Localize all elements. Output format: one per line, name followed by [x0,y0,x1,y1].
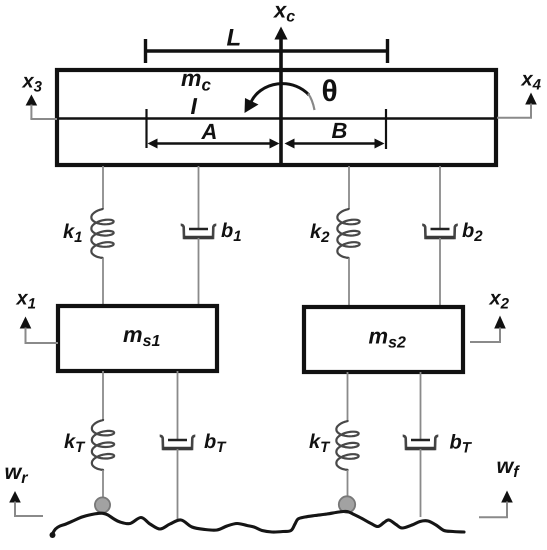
road profile [52,511,464,534]
svg-text:L: L [227,25,242,52]
rod m_s1 to damper bT [177,371,179,439]
svg-text:B: B [332,118,348,143]
tyre damper bT right [403,436,439,449]
L right tick [386,39,389,63]
rod spring k1 to m_s1 [102,258,104,306]
damper b1 [181,225,217,238]
rod spring kT right to wheel [347,470,349,499]
svg-text:θ: θ [322,75,338,108]
rod damper bT left to ground [177,449,179,519]
rod m_s2 to damper bT right [420,372,422,439]
x_4 arrow [525,93,537,105]
rod body to damper b1 [198,166,200,228]
L left tick [144,39,147,63]
spring k2 [337,208,359,259]
rod damper bT right to ground [420,449,422,517]
rod m_s2 to spring kT right [347,372,349,422]
rod spring k2 to m_s2 [348,258,350,307]
wheel contact left [95,497,110,512]
A double arrow [152,142,275,144]
tyre spring kT left [92,419,114,471]
rod damper b2 to m_s2 [439,238,441,307]
mass m_s1 box [58,306,217,371]
rod damper b1 to m_s1 [198,238,200,306]
x_3 arrow [26,95,38,106]
mass m_s2 box [304,307,463,372]
damper b2 [422,225,458,238]
x_1 arrow [20,317,32,329]
x_c arrowhead [274,27,287,40]
rod body to spring k1 [102,166,104,209]
rod body to damper b2 [439,166,441,228]
B double arrow [289,142,380,144]
w_r arrow [9,491,21,503]
theta curved arrow [251,84,309,102]
car body mass rectangle [57,70,496,165]
wheel contact right [339,496,355,512]
A dimension tick [145,109,147,148]
B dimension tick [385,109,387,149]
tyre spring kT right [336,420,358,471]
w_f arrow [501,491,513,503]
svg-text:A: A [201,119,218,144]
body middle line [57,117,496,120]
rod body to spring k2 [348,166,350,209]
rod m_s1 to spring kT [102,371,104,420]
svg-text:I: I [191,93,198,119]
L dimension line [145,49,388,53]
spring k1 [91,208,113,259]
rod spring kT left to wheel [102,470,104,500]
tyre damper bT left [160,436,196,449]
x_2 arrow [494,316,506,329]
x_c axis line [279,38,283,163]
